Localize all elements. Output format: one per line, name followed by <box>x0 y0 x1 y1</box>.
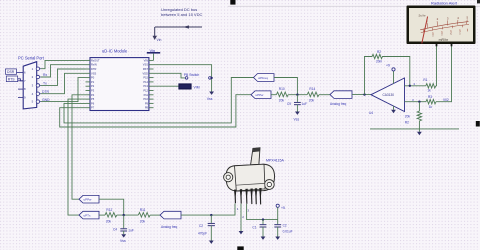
module U1 left pin stubs <box>86 60 91 107</box>
net label DSR <box>6 69 19 74</box>
op-amp V+ terminal +9 <box>386 64 395 84</box>
svg-text:C9: C9 <box>287 102 291 106</box>
ground arrow C2 <box>209 241 214 244</box>
wire Rx DB9 pin2 to module RxIN <box>41 65 86 77</box>
wire module P5 to uPTx tag (drop at x=68) <box>68 99 86 215</box>
svg-text:uD-IC Module: uD-IC Module <box>102 49 128 54</box>
svg-text:VSS: VSS <box>143 63 148 67</box>
svg-text:P7: P7 <box>91 106 95 110</box>
svg-text:MPX4115A: MPX4115A <box>266 159 285 163</box>
resistor R2 20m feedback <box>365 50 410 95</box>
power rail symbol Vin <box>147 48 160 61</box>
wire module P4 to uPPw tag (drop at x=72) <box>72 95 86 199</box>
svg-text:20k: 20k <box>279 99 285 103</box>
module U1 right pin stubs <box>149 60 154 107</box>
svg-text:R1: R1 <box>423 78 427 82</box>
wire Analog freq tag to sensor pin1 <box>181 204 235 216</box>
svg-text:DTR: DTR <box>91 67 96 71</box>
svg-text:DTR: DTR <box>42 90 50 94</box>
svg-text:VSS: VSS <box>91 71 96 75</box>
svg-text:1k: 1k <box>429 105 433 109</box>
svg-text:Vss: Vss <box>207 97 213 101</box>
svg-text:20k: 20k <box>140 219 146 223</box>
net tag Analog freq (chain1) <box>330 91 352 106</box>
svg-text:P6: P6 <box>91 101 95 105</box>
svg-text:Analog freq: Analog freq <box>330 102 347 106</box>
svg-text:uPFreq: uPFreq <box>258 76 268 80</box>
svg-text:RST: RST <box>143 67 149 71</box>
svg-text:P14: P14 <box>143 80 148 84</box>
junction chain1 <box>296 94 298 96</box>
wire uPTx tag to R12 <box>99 214 105 216</box>
right mounting ear <box>264 180 274 190</box>
svg-text:P5: P5 <box>91 97 95 101</box>
svg-text:VIN: VIN <box>144 58 148 62</box>
resistor R2 20k vertical <box>405 102 422 129</box>
svg-text:C2: C2 <box>283 223 287 227</box>
port tube <box>251 148 260 165</box>
sheet zone glyph D right edge <box>476 121 480 127</box>
svg-text:R11: R11 <box>140 208 146 212</box>
connector J1 DB9 body <box>23 62 37 109</box>
net tag uPPw (chain2 upper) <box>79 195 99 203</box>
net tag uPFreq (chain1) <box>254 74 275 82</box>
svg-text:1uF: 1uF <box>302 102 308 106</box>
wire sensor pin3 to +5 node <box>247 204 278 220</box>
meter M1 body <box>407 6 476 45</box>
svg-text:20k: 20k <box>309 99 315 103</box>
wire R11 to Analog freq tag <box>150 214 160 216</box>
terminal +5 <box>276 204 285 224</box>
connector J1 left pin stubs 6-9 <box>18 73 23 98</box>
ground arrow below rail <box>417 129 422 135</box>
wire Tx DB9 pin3 to module DTR <box>41 69 86 85</box>
svg-text:+9: +9 <box>386 64 390 68</box>
resistor R3 1k <box>426 95 436 109</box>
svg-text:Vss: Vss <box>294 118 300 122</box>
svg-text:Rx: Rx <box>43 73 47 77</box>
svg-text:R12: R12 <box>106 208 112 212</box>
junction pin3/C1 node <box>262 218 264 220</box>
svg-text:P2: P2 <box>91 84 95 88</box>
wire uPFreq to chain1 junction <box>274 78 297 95</box>
wire DC bus with arrow <box>153 25 203 40</box>
svg-text:VDD: VDD <box>143 71 149 75</box>
left mounting ear <box>224 173 233 182</box>
svg-text:VIM: VIM <box>194 86 200 90</box>
svg-text:0.01uF: 0.01uF <box>283 230 293 234</box>
sensor U2 MPX4115A pressure sensor drawing <box>224 148 275 205</box>
sheet zone glyph bottom <box>237 246 243 250</box>
wire uPPw tag to chain2 junction <box>99 199 124 215</box>
meter M1 face markings <box>418 14 469 43</box>
svg-text:R10: R10 <box>279 87 285 91</box>
wire uPPw to R10 <box>271 94 276 96</box>
module U1 body <box>90 58 149 111</box>
svg-text:1k: 1k <box>427 89 431 93</box>
wire module P6 wrap to uPFreq tag <box>64 78 254 123</box>
meter M1 needle <box>422 17 428 44</box>
resistor R10 20k <box>276 87 288 102</box>
svg-text:P13: P13 <box>143 84 148 88</box>
svg-text:PC Serial Port: PC Serial Port <box>18 55 45 60</box>
ground Vss chain1 <box>295 112 300 115</box>
svg-text:P8: P8 <box>145 106 149 110</box>
wire Analog freq tag to op-amp input <box>352 94 371 96</box>
svg-text:Radiation Alert: Radiation Alert <box>431 1 458 6</box>
svg-text:1uF: 1uF <box>128 228 134 232</box>
wire module pin to switch left contact <box>154 73 186 78</box>
op-amp V- ground <box>391 106 396 113</box>
wire DB9 pin1 to module RxOUT <box>41 60 86 68</box>
svg-text:P11: P11 <box>144 93 149 97</box>
module U1 left pin labels <box>91 58 100 109</box>
ground C1 <box>261 237 266 240</box>
svg-text:P12: P12 <box>143 89 148 93</box>
capacitor C1 <box>252 220 266 237</box>
wire ground rail <box>370 128 459 130</box>
package body inner <box>235 164 266 191</box>
junction chain2 C2 node <box>210 214 212 216</box>
svg-text:+5: +5 <box>281 206 285 210</box>
net label RTS <box>6 76 23 82</box>
capacitor C2b 0.01uF on +5 <box>274 223 292 236</box>
sheet border line top <box>228 5 480 7</box>
svg-text:R14: R14 <box>309 87 315 91</box>
svg-text:C2: C2 <box>199 224 203 228</box>
junction at switch right contact <box>210 77 212 79</box>
wire R3 to meter right terminal <box>436 44 452 102</box>
svg-text:RTS: RTS <box>8 77 15 81</box>
svg-text:U4: U4 <box>369 111 373 115</box>
svg-text:20k: 20k <box>405 115 411 119</box>
wire R1 to meter left terminal <box>435 44 438 86</box>
ground Vss below switch <box>209 92 214 95</box>
wire R12 to junction <box>117 214 139 216</box>
svg-text:470pF: 470pF <box>198 232 207 236</box>
switch S1 PB Switch <box>184 73 211 79</box>
crystal X1 VIM box <box>154 84 200 90</box>
svg-text:P0: P0 <box>91 76 95 80</box>
svg-text:Analog freq: Analog freq <box>161 225 178 229</box>
svg-text:P9: P9 <box>145 101 149 105</box>
svg-text:Vss: Vss <box>120 239 126 243</box>
connector J1 pin numbers 6-9 <box>24 71 26 100</box>
svg-text:Vin: Vin <box>157 38 162 42</box>
module U1 right pin labels <box>143 58 149 109</box>
resistor R14 20k <box>307 87 319 102</box>
pins <box>234 188 262 205</box>
capacitor C4 1uF <box>113 215 134 234</box>
svg-text:uPPw: uPPw <box>84 198 93 202</box>
op-amp pin 2 wire to R1 <box>405 85 426 87</box>
wire module VSS pin to switch and ground <box>154 65 212 92</box>
capacitor C9 1uF <box>287 95 307 112</box>
op-amp pin 3 wire <box>405 101 427 103</box>
svg-text:P10: P10 <box>143 97 148 101</box>
svg-text:RxIN: RxIN <box>91 63 97 67</box>
op-amp U4 CA3130 <box>369 78 405 115</box>
body capsule <box>226 164 275 191</box>
junction chain2 <box>123 214 125 216</box>
wire DTR DB9 pin4 to module pin <box>41 73 86 93</box>
svg-text:RxOUT: RxOUT <box>91 58 100 62</box>
svg-text:20k: 20k <box>106 219 112 223</box>
svg-text:mR/hr: mR/hr <box>439 38 449 42</box>
sheet zone glyph D top <box>230 0 235 5</box>
svg-text:uPPw: uPPw <box>256 93 265 97</box>
svg-text:R2: R2 <box>377 50 381 54</box>
svg-text:P15: P15 <box>143 76 148 80</box>
meter M1 terminal stubs <box>437 44 452 46</box>
ground C2b <box>275 237 280 240</box>
resistor R11 20k <box>138 208 150 223</box>
wire sensor pin2 to ground <box>240 204 242 231</box>
connector J1 right pin circles and stubs <box>36 67 41 103</box>
junction feedback to pin2 <box>409 85 411 87</box>
svg-text:P1: P1 <box>91 80 95 84</box>
junction pin3 node <box>418 101 420 103</box>
svg-text:R3: R3 <box>428 95 432 99</box>
svg-text:C4: C4 <box>113 227 117 231</box>
ground sensor pin2 <box>239 231 244 234</box>
junction feedback node <box>363 93 365 95</box>
capacitor C2 470pF <box>198 215 215 240</box>
svg-text:P4: P4 <box>91 93 95 97</box>
wire GND DB9 pin5 to module pin <box>41 78 86 102</box>
net tag uPTx (chain2 lower) <box>79 211 99 219</box>
svg-text:R2: R2 <box>405 121 409 125</box>
svg-text:CA3130: CA3130 <box>383 93 395 97</box>
svg-text:20m: 20m <box>376 60 383 64</box>
svg-text:DSR: DSR <box>7 70 15 74</box>
svg-text:GND: GND <box>42 98 50 102</box>
net tag uPPw (chain1) <box>251 91 271 99</box>
svg-text:P3: P3 <box>91 89 95 93</box>
net tag Analog freq (chain2) <box>160 211 181 229</box>
wire R14 to Analog freq tag <box>319 94 330 96</box>
resistor R12 20k <box>105 208 117 223</box>
svg-text:between 5 and 15 VDC: between 5 and 15 VDC <box>161 12 202 17</box>
resistor R1 1k <box>423 78 435 92</box>
note: unregulated DC bus text <box>161 7 202 17</box>
svg-text:Tx: Tx <box>43 81 47 85</box>
svg-text:Unregulated DC bus: Unregulated DC bus <box>161 7 197 12</box>
svg-text:uPTx: uPTx <box>84 214 92 218</box>
svg-text:.5u/hr: .5u/hr <box>418 14 426 18</box>
svg-text:C1: C1 <box>252 226 256 230</box>
sheet zone mark top-right corner <box>477 0 480 3</box>
connector J1 pin numbers 1-5 <box>32 67 34 104</box>
ground Vss chain2 <box>121 234 126 237</box>
wire R10 to junction <box>288 94 307 96</box>
wire module P7 wrap to uPPw chain tag <box>60 95 251 127</box>
